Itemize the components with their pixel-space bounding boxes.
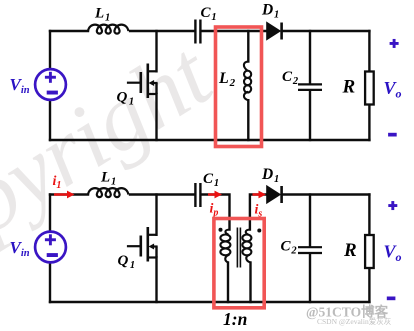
plus terminal (top) <box>390 39 399 48</box>
wire left side upper <box>49 31 51 69</box>
svg-text:Q1: Q1 <box>118 253 136 271</box>
wire transformer secondary bottom <box>249 263 251 303</box>
svg-text:Vin: Vin <box>10 75 30 96</box>
current arrow i1 <box>54 191 75 199</box>
wire C2 bottom <box>309 91 311 140</box>
transformer primary dot <box>219 228 223 232</box>
svg-text:C2: C2 <box>281 239 298 257</box>
wire D1 to top-right corner <box>282 30 370 32</box>
voltage source Vin (top) <box>35 69 66 100</box>
svg-text:L1: L1 <box>94 6 110 24</box>
watermark Copyright <box>0 22 230 310</box>
inductor L2 <box>244 62 251 101</box>
svg-text:D1: D1 <box>261 166 279 185</box>
capacitor C1 (top) <box>195 20 200 44</box>
resistor R (top) <box>365 72 374 105</box>
wire left side lower <box>49 100 51 140</box>
wire C2 top <box>309 31 311 83</box>
highlight box around L2 <box>216 27 262 147</box>
wire D1 to top-right corner (bottom) <box>282 193 370 195</box>
current arrow i_p <box>208 191 222 199</box>
wire Q1 drain (bottom) <box>155 195 157 235</box>
voltage source Vin (bottom) <box>35 232 66 263</box>
inductor L1 (top) <box>88 25 128 34</box>
svg-text:L2: L2 <box>218 70 236 89</box>
wire right side below R <box>368 105 370 141</box>
plus terminal (bottom) <box>388 201 397 210</box>
capacitor C2 (top) <box>298 84 322 90</box>
svg-text:1:n: 1:n <box>223 309 247 329</box>
svg-text:Copyright: Copyright <box>0 22 230 310</box>
transformer primary winding <box>220 230 230 263</box>
wire C2 top (bottom) <box>309 195 311 247</box>
wire L2 top <box>247 31 249 62</box>
wire C2 bottom (bottom) <box>309 254 311 302</box>
wire L2 bottom <box>247 100 249 140</box>
minus terminal (top) <box>388 133 397 137</box>
wire transformer primary bottom <box>227 263 229 303</box>
wire top-left from source to L1 (bottom) <box>50 193 88 195</box>
svg-text:R: R <box>343 240 357 261</box>
wire Q1 drain <box>155 31 157 71</box>
wire bottom <box>50 139 369 141</box>
svg-text:Vo: Vo <box>384 78 402 101</box>
wire L1 to C1 (bottom) <box>130 193 194 195</box>
wire right side above R <box>368 31 370 72</box>
capacitor C1 (bottom) <box>195 183 200 207</box>
transformer secondary dot <box>257 229 261 233</box>
svg-text:C1: C1 <box>203 171 219 189</box>
capacitor C2 (bottom) <box>298 247 322 253</box>
wire left side lower (bottom) <box>49 263 51 303</box>
wire right side above R (bottom) <box>368 195 370 236</box>
svg-text:D1: D1 <box>261 2 279 21</box>
transistor Q1 (bottom) <box>127 227 158 262</box>
wire L1 to C1 <box>130 30 194 32</box>
wire left side upper (bottom) <box>49 195 51 232</box>
highlight box around transformer <box>214 219 264 308</box>
wire transformer secondary to D1 <box>250 195 267 230</box>
transformer core <box>237 228 240 268</box>
inductor L1 (bottom) <box>88 188 128 197</box>
diode D1 (top) <box>266 21 281 40</box>
current arrow i_s <box>253 191 267 199</box>
wire Q1 source (bottom) <box>155 258 157 303</box>
transformer secondary winding <box>242 230 251 263</box>
resistor R (bottom) <box>365 235 374 268</box>
minus terminal (bottom) <box>387 297 396 301</box>
wire Q1 source <box>155 94 157 140</box>
svg-text:C1: C1 <box>201 5 217 23</box>
svg-text:ip: ip <box>210 202 219 219</box>
svg-text:Vin: Vin <box>10 238 30 259</box>
wire top-left from source to L1 <box>50 30 88 32</box>
diode D1 (bottom) <box>266 185 281 204</box>
wire right side below R (bottom) <box>368 268 370 302</box>
wire C1 to transformer primary <box>201 195 229 230</box>
svg-text:Vo: Vo <box>384 242 402 265</box>
wire bottom (bottom circuit) <box>50 301 369 303</box>
svg-text:CSDN @Zevalin爱灰灰: CSDN @Zevalin爱灰灰 <box>317 316 392 326</box>
transistor Q1 (top) <box>127 64 158 99</box>
wire C1 to D1 <box>201 30 266 32</box>
svg-text:C2: C2 <box>282 69 299 87</box>
svg-text:R: R <box>342 77 356 98</box>
